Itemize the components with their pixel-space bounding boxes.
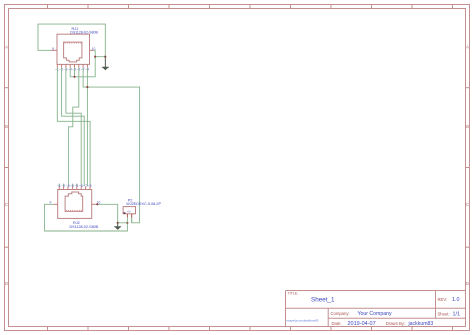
svg-text:D: D [5,281,8,286]
svg-text:DS1128-02-S80B: DS1128-02-S80B [70,225,99,229]
wire stubs RJ2 unconnected pins [59,184,77,187]
svg-text:Date:: Date: [332,321,342,326]
wire: pin7 to P2 net [83,68,87,88]
junction at right pin net [94,56,96,58]
svg-text:B: B [5,124,8,129]
RJ1 contact teeth [65,42,81,44]
frame row letters [5,45,469,287]
wire: RJ1 left pin loop to top [38,24,105,57]
svg-text:2019-04-07: 2019-04-07 [348,321,376,327]
P2 pins [127,214,131,218]
svg-text:~5: ~5 [74,184,78,188]
svg-text:DS1128-02-S80B: DS1128-02-S80B [70,31,98,35]
terminal block P2 body [123,207,135,214]
wire: RJ2 right pin to ground [96,204,128,223]
RJ2 pin numbers [50,184,101,204]
svg-text:~1: ~1 [57,184,61,188]
svg-text:1/1: 1/1 [453,312,461,318]
wire: pin6 to RJ2 pin3 [69,68,79,187]
svg-text:~6: ~6 [79,184,83,188]
ground GND1 [102,57,109,71]
wire: P2 pin2 down [131,218,133,223]
wire: RJ1 right pin to ground net [94,50,106,56]
junction RJ2 right pin [96,203,98,205]
svg-text:~8: ~8 [88,184,92,188]
svg-text:~7: ~7 [83,184,87,188]
P2 internal marks [127,210,132,214]
svg-text:9: 9 [52,47,54,51]
junction pin5 [73,76,75,78]
RJ1 bottom pins 1-8 [57,64,87,67]
junction gnd2 [117,222,119,224]
P2 pin1 marker [124,212,126,214]
svg-text:C: C [466,202,469,207]
svg-text:1.0: 1.0 [452,297,460,303]
ground GND2 [114,223,121,230]
svg-text:C: C [5,202,8,207]
title block [286,291,466,328]
RJ2 top pins [59,186,90,189]
svg-text:REV:: REV: [438,297,448,302]
title block texts [287,292,461,328]
RJ1 side pins [51,49,94,51]
wire: pin8 straight down to RJ2 [86,68,88,187]
svg-text:~4: ~4 [70,184,74,188]
svg-text:TITLE:: TITLE: [288,292,299,296]
svg-text:B: B [466,124,469,129]
RJ2 side pins [54,203,96,205]
connector RJ1 body [57,34,90,64]
svg-text:Your Company: Your Company [358,311,393,317]
svg-text:Sheet_1: Sheet_1 [311,297,335,304]
svg-text:A: A [466,45,469,50]
wire: pin2 crossover [62,68,85,187]
svg-text:~2: ~2 [61,184,65,188]
svg-text:+0~: +0~ [127,210,132,214]
svg-text:D: D [466,281,469,286]
svg-text:Sheet:: Sheet: [438,312,450,317]
svg-text:Drawn By:: Drawn By: [386,321,405,326]
wire: P2 pin1 to ground rail [126,218,128,223]
wire: pin8 junction to P2 [87,87,139,223]
RJ2 contact teeth [66,210,81,212]
junction at gnd stem [104,56,106,58]
junction pins7-8 [86,86,88,88]
svg-text:WJ2EDGVC-5.08-2P: WJ2EDGVC-5.08-2P [126,202,161,206]
svg-text:~3: ~3 [66,184,70,188]
junction P2 pin1 [126,222,128,224]
wire: RJ2 left pin ground loop [45,204,128,231]
svg-text:Company:: Company: [331,311,350,316]
wire: ground branch to pins 4,5 [70,57,95,77]
svg-text:jackkum83: jackkum83 [408,321,434,327]
svg-text:easyeda.com/jackkum83: easyeda.com/jackkum83 [287,319,319,323]
RJ1 pin numbers [52,47,95,72]
wire: pin3 to RJ2 pin6 [66,68,81,187]
connector RJ2 body [58,190,92,219]
wire: pin1 to RJ2 pin8 [57,68,90,187]
svg-text:A: A [5,45,8,50]
